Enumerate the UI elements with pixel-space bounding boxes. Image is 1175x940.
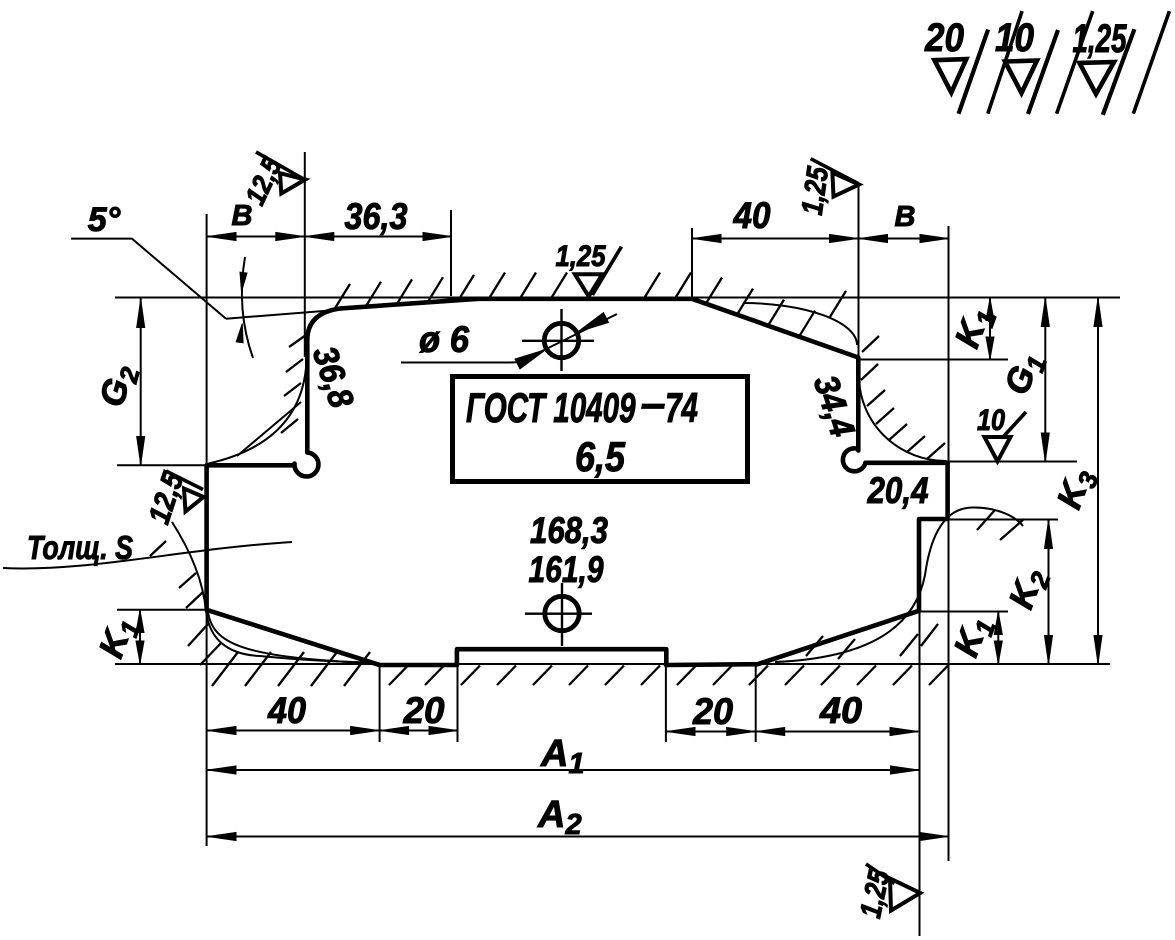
profile right edge curl [843,448,866,471]
extension line x666 [665,666,667,742]
svg-text:40: 40 [267,690,306,731]
label 34,4 rotated [806,371,862,442]
phi6 leader underline [401,351,543,363]
svg-text:20: 20 [924,16,964,60]
hatching left lower arc [150,541,221,665]
hatching bottom right fillet [806,624,938,659]
level line K2 top [920,519,1058,521]
profile bottom flange left and slope [207,610,457,665]
dimension arrow K1 right bottom [997,612,999,664]
svg-text:1,25: 1,25 [796,164,836,217]
dimension arrow K2 [1048,520,1050,664]
profile right bottom slope and bottom flange [666,611,919,665]
roughness trio 1,25 [1080,62,1115,94]
top reference line [115,297,1120,299]
inner fillet arc bottom-right with bump [775,507,1023,662]
GOST label box [453,377,748,482]
roughness 1,25 bottom-right [890,879,920,911]
profile left outer web and lip [207,465,294,610]
svg-text:40: 40 [819,690,862,731]
hatching right bump [977,510,1024,540]
roughness 10 right [985,437,1011,461]
label 36,8 rotated [305,342,361,413]
extension line x458 [457,666,459,742]
hole circle top [544,323,578,357]
profile right lip, step and outer web [866,463,948,611]
inner chord line top-left [237,402,301,456]
dimension arrow G1 [1044,298,1046,462]
level line K1 right top [858,359,1008,361]
extension line 36,3 right [450,210,452,296]
angle dimension arc [242,257,253,358]
dimension line 20 40 bottom-right [666,731,918,733]
level line K1 left [117,609,205,611]
label K1 left rotated [91,612,146,664]
hatching bottom-left wedge [212,652,370,686]
profile left inner web, corner and top flange [307,299,692,453]
svg-text:20: 20 [403,690,445,731]
label K1 right-bottom rotated [946,611,1001,663]
svg-text:36,3: 36,3 [345,196,408,237]
dimension arrow K3 [1097,298,1099,664]
roughness trio 10 [1005,61,1037,94]
dimension line A1 [207,769,919,771]
extension line x379 [379,664,381,742]
svg-text:1,25: 1,25 [1073,17,1128,61]
extension line x919 bottom [919,612,921,936]
big thin arc bottom-left [172,522,368,663]
svg-text:161,9: 161,9 [529,549,604,590]
inner fillet arc top-right lower [859,376,947,461]
label K1 right-top rotated [947,302,1002,354]
svg-text:Толщ. S: Толщ. S [27,529,133,566]
extension line x755 [755,664,757,742]
label K3 rotated [1049,463,1104,516]
dimension arrow K1 right top [989,298,991,360]
svg-text:168,3: 168,3 [530,510,608,551]
extension line x858 [858,186,860,360]
level line G1 bottom [866,461,1077,463]
5 degree tangent line [226,305,400,319]
svg-text:ø 6: ø 6 [419,319,469,360]
svg-text:10: 10 [977,404,1005,437]
profile left edge curl [294,453,318,477]
dimension arrow G2 [140,299,142,466]
svg-text:40: 40 [733,195,771,236]
extension line right outer [948,226,950,861]
tolshch S leader underline [3,542,292,568]
hole circle bottom [545,596,579,630]
roughness 12,5 top-left [280,173,305,193]
phi6 diagonal with arrows [530,314,617,357]
level line G2 bottom [117,464,205,466]
label G2 rotated [92,360,145,412]
dimension line 40 20 bottom-left [207,730,458,732]
extension line left outer [206,214,208,846]
svg-text:В: В [895,201,916,233]
dimension line B 36,3 [207,236,451,238]
svg-text:10: 10 [995,16,1034,60]
roughness 12,5 left-lower [184,489,204,512]
dimension line A2 [207,836,948,838]
hatching top edge [334,273,846,337]
roughness 1,25 top-right [832,173,859,197]
label G1 rotated [997,347,1053,401]
hatching bottom edge [389,666,948,686]
svg-text:1,25: 1,25 [556,240,607,273]
svg-text:20,4: 20,4 [867,470,929,511]
extension line slope start [691,228,693,297]
svg-text:20: 20 [692,691,733,732]
svg-text:6,5: 6,5 [575,433,626,480]
hatching right inner arc [861,336,945,459]
level line K1 right bottom [920,611,1008,613]
profile right top slope and inner web [692,299,858,451]
svg-text:В: В [232,200,253,232]
bottom tab [457,649,666,665]
hatching left web [281,335,306,433]
inner fillet arc top-right upper [743,303,857,345]
svg-text:ГОСТ 10409－74: ГОСТ 10409－74 [466,384,698,431]
label K2 rotated [1001,563,1056,616]
inner fillet arc top-left [209,368,307,464]
svg-text:5°: 5° [88,201,121,239]
bottom reference line [115,663,1110,665]
roughness 1,25 top-middle [575,274,602,296]
roughness trio 20 [935,59,967,93]
bottom-left fillet thin curve [208,612,380,664]
extension line left inner [304,152,306,357]
dimension line 40 B [692,238,949,240]
dimension arrow K1 left [139,610,141,664]
5 degree leader [71,239,226,319]
